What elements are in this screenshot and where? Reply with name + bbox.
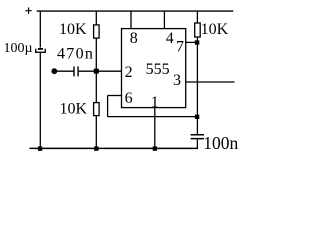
value label 555 — [146, 61, 170, 78]
resistor R1 10K — [94, 25, 100, 38]
pin 8 label — [130, 30, 138, 47]
svg-text:8: 8 — [130, 30, 138, 47]
wire node B down to node C — [196, 42, 198, 116]
svg-text:100µ: 100µ — [4, 41, 33, 56]
value label 10K (R3) — [60, 101, 88, 118]
svg-text:10K: 10K — [60, 101, 88, 118]
svg-text:100n: 100n — [203, 133, 238, 153]
wire left vertical from rail to C1 — [39, 11, 41, 47]
svg-text:7: 7 — [176, 38, 184, 55]
wire pin 1 to ground rail — [154, 108, 156, 149]
capacitor C3 100n — [191, 135, 204, 139]
junction pin 1 wire to ground rail — [153, 146, 157, 150]
wire pin 6 vertical drop — [107, 96, 109, 117]
junction R3 wire to ground rail — [94, 146, 98, 150]
wire pin 8 to rail — [130, 11, 132, 28]
wire pin 4 to rail — [163, 11, 165, 28]
wire pin 3 output — [186, 81, 235, 83]
value label 10K (R1) — [59, 21, 87, 38]
pin 2 label — [125, 64, 133, 81]
value label 470n — [57, 46, 94, 63]
wire pin 6 left stub — [108, 95, 122, 97]
wire bottom ground rail — [30, 147, 198, 149]
capacitor C1 100µ polarized — [35, 48, 46, 53]
value label 100n — [203, 133, 238, 153]
wire R2 to node B — [196, 37, 198, 42]
svg-text:6: 6 — [125, 90, 133, 107]
pin 4 label — [166, 30, 174, 47]
svg-text:10K: 10K — [59, 21, 87, 38]
pin 1 label — [151, 94, 159, 111]
value label 100µ — [4, 41, 33, 56]
wire pin 6 route to node C — [108, 116, 198, 118]
node V+ terminal plus sign — [25, 8, 31, 14]
junction node C (pin6 route/C3) — [195, 115, 199, 119]
op-amp U1 555 timer IC body — [122, 29, 186, 108]
resistor R2 10K — [195, 23, 201, 37]
junction node A (R1/R3/C2/pin2) — [94, 69, 99, 74]
junction left wire to ground rail — [38, 146, 42, 150]
pin 3 label — [173, 72, 181, 89]
wire R3 to ground rail — [95, 116, 97, 149]
pin 6 label — [125, 90, 133, 107]
wire input dot to C2 — [56, 70, 74, 72]
terminal dot input — [51, 68, 57, 74]
svg-text:555: 555 — [146, 61, 170, 78]
resistor R3 10K — [94, 103, 100, 116]
value label 10K (R2) — [201, 21, 229, 38]
svg-text:10K: 10K — [201, 21, 229, 38]
wire from R1 down to node A — [95, 38, 97, 103]
wire node C to C3 — [196, 117, 198, 134]
svg-text:470n: 470n — [57, 46, 94, 63]
wire left vertical from C1 to ground rail — [39, 53, 41, 149]
wire pin 7 to node B — [186, 41, 198, 43]
wire C2 to pin 2 of U1 — [79, 70, 122, 72]
wire from rail down to R1 — [95, 11, 97, 25]
svg-text:4: 4 — [166, 30, 174, 47]
junction node B (pin7/R2) — [195, 40, 199, 44]
wire C3 to ground rail — [196, 139, 198, 149]
capacitor C2 470n — [74, 66, 78, 76]
pin 7 label — [176, 38, 184, 55]
wire top supply rail — [37, 10, 234, 12]
svg-text:3: 3 — [173, 72, 181, 89]
wire from rail down to R2 — [196, 11, 198, 23]
svg-text:2: 2 — [125, 64, 133, 81]
